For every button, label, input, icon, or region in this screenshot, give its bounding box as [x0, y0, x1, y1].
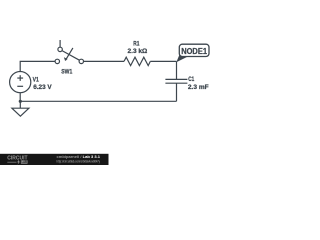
node NODE1 label box	[179, 44, 209, 56]
wire: switch to resistor	[84, 60, 125, 62]
label C1 value	[188, 76, 209, 91]
svg-text:V1: V1	[33, 77, 39, 84]
node junction dot	[19, 100, 22, 103]
resistor R1	[124, 57, 150, 65]
footer bar	[0, 154, 109, 165]
wire: bottom rail	[20, 100, 176, 102]
wire: resistor to node	[150, 60, 176, 62]
svg-text:6.23 V: 6.23 V	[33, 84, 52, 91]
svg-text:C1: C1	[188, 76, 194, 83]
svg-text:NODE1: NODE1	[181, 47, 207, 56]
svg-text:cmbiparnell / Lab 3 3.1: cmbiparnell / Lab 3 3.1	[57, 155, 101, 159]
footer logo CIRCUIT LAB	[7, 156, 28, 165]
node NODE1 pointer	[176, 53, 188, 63]
voltage source V1	[10, 72, 31, 93]
label V1 value	[33, 77, 53, 91]
svg-text:LAB: LAB	[22, 160, 28, 164]
svg-text:2.3 kΩ: 2.3 kΩ	[128, 48, 149, 55]
label R1 value	[128, 41, 149, 56]
svg-text:SW1: SW1	[61, 69, 72, 76]
switch SW1	[55, 40, 83, 64]
svg-text:R1: R1	[133, 41, 139, 48]
footer credit line	[57, 155, 101, 164]
ground	[12, 101, 29, 116]
wire: V1 bottom lead	[19, 93, 21, 102]
svg-text:http://circuitlab.com/c/b6da4u: http://circuitlab.com/c/b6da4uv8647y	[57, 160, 101, 164]
svg-text:2.3 mF: 2.3 mF	[188, 84, 209, 91]
wire: V1 top lead up and right to switch	[20, 61, 55, 71]
capacitor C1	[165, 61, 187, 101]
